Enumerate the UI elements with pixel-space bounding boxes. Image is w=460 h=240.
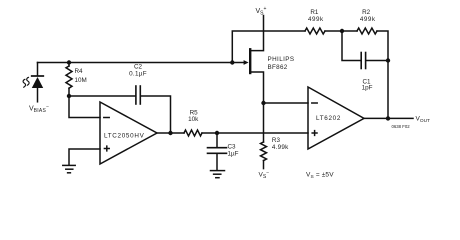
svg-text:1pF: 1pF <box>362 84 373 91</box>
svg-text:0638 F02: 0638 F02 <box>392 124 411 129</box>
svg-text:499k: 499k <box>308 16 324 23</box>
svg-text:1µF: 1µF <box>228 150 239 157</box>
svg-text:LTC2050HV: LTC2050HV <box>104 133 145 140</box>
svg-text:0.1µF: 0.1µF <box>129 71 147 78</box>
svg-text:4.99k: 4.99k <box>272 144 289 151</box>
svg-text:499k: 499k <box>360 16 376 23</box>
svg-text:C2: C2 <box>134 63 143 70</box>
svg-text:10M: 10M <box>75 77 87 84</box>
svg-text:R3: R3 <box>272 137 281 144</box>
svg-text:PHILIPS: PHILIPS <box>268 56 295 63</box>
svg-text:R2: R2 <box>362 9 371 16</box>
svg-text:10k: 10k <box>188 116 199 123</box>
svg-text:LT6202: LT6202 <box>316 115 341 122</box>
svg-text:BF862: BF862 <box>268 64 288 71</box>
svg-text:R4: R4 <box>75 68 84 75</box>
svg-text:R1: R1 <box>310 9 319 16</box>
